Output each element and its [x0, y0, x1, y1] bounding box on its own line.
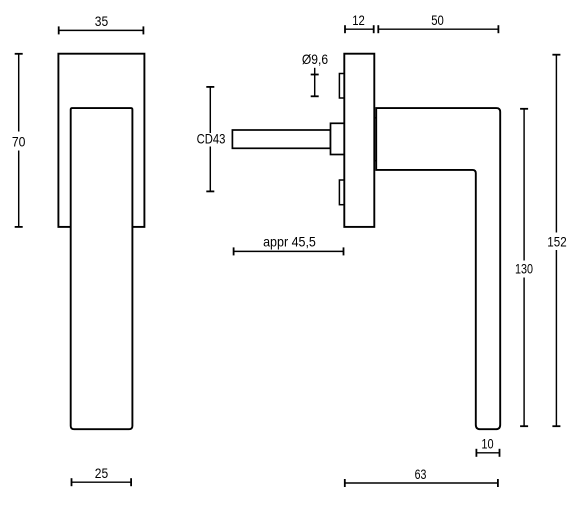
svg-text:130: 130 — [515, 262, 533, 277]
svg-text:63: 63 — [415, 467, 427, 482]
svg-text:152: 152 — [547, 235, 566, 250]
svg-text:12: 12 — [352, 13, 365, 28]
svg-text:appr 45,5: appr 45,5 — [263, 235, 316, 250]
dimension 50 (lever horizontal length) — [378, 25, 498, 33]
dimension 130 (lever height) — [520, 109, 528, 426]
svg-text:Ø9,6: Ø9,6 — [302, 52, 328, 67]
svg-text:70: 70 — [12, 134, 26, 149]
dimension 70 (front plate height) — [15, 54, 23, 227]
side view spindle shaft — [232, 130, 330, 148]
side view spindle hub block — [331, 123, 345, 154]
dimension 10 (lever bar width) — [476, 449, 499, 457]
side view lower screw lug — [339, 180, 344, 205]
side view upper screw lug — [339, 74, 344, 99]
dimension 152 (overall height) — [552, 55, 560, 427]
side view handle (lever) — [376, 108, 500, 429]
dimension appr 45,5 (projection) — [234, 247, 344, 255]
dimension 25 (front grip width) — [72, 478, 132, 486]
svg-text:CD43: CD43 — [197, 132, 226, 147]
dimension 35 (front plate width) — [59, 26, 144, 34]
dimension 12 (rosette thickness) — [345, 25, 374, 33]
neck connector ticks between rosette and lever — [374, 118, 376, 161]
svg-text:35: 35 — [95, 14, 109, 29]
side view rosette plate — [344, 54, 374, 227]
dimension CD43 (center distance) — [206, 87, 214, 191]
front view handle grip bar — [71, 108, 133, 429]
svg-text:50: 50 — [431, 13, 444, 28]
svg-text:25: 25 — [95, 466, 109, 481]
svg-text:10: 10 — [481, 436, 493, 451]
front view rosette plate — [58, 54, 144, 227]
dimension 63 (overall depth) — [345, 479, 498, 487]
